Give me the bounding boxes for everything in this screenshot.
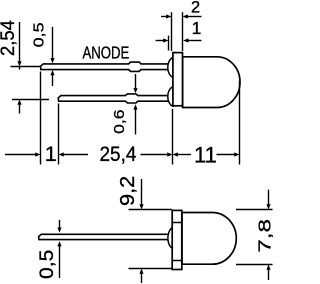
extension lines for dim 2: [171, 12, 173, 51]
tick at cathode lead centerline: [12, 99, 49, 101]
wire: cathode lead (bottom lead with crimp bump): [58, 94, 168, 103]
svg-text:25,4: 25,4: [100, 143, 137, 166]
wire: lead (bottom view): [39, 234, 169, 239]
extension line: dome right tangent: [239, 81, 241, 165]
dimension 7,8 (body diameter): [236, 190, 273, 280]
LED body (bottom view): [182, 213, 236, 265]
extension lines 7,8: [236, 209, 273, 211]
tick at anode lead centerline: [11, 66, 41, 68]
svg-text:0,6: 0,6: [112, 109, 127, 133]
lead standoff bulge (cathode, at flange): [168, 87, 174, 107]
extension line: anode lead left end: [40, 72, 42, 165]
svg-text:2,54: 2,54: [0, 20, 18, 56]
lead standoff bulge (bottom view): [168, 227, 175, 249]
svg-text:1: 1: [45, 142, 57, 166]
flange (side view): [173, 53, 183, 106]
dimension 0,6 (cathode lead thickness at bump): [133, 74, 137, 135]
dimension 2 (flange thickness): [161, 12, 202, 51]
svg-text:2: 2: [191, 0, 200, 17]
svg-text:7,8: 7,8: [255, 219, 275, 253]
svg-text:0,5: 0,5: [36, 250, 57, 279]
dimension 9,2 (flange diameter): [129, 179, 172, 283]
svg-text:9,2: 9,2: [115, 176, 138, 206]
bottom dimension chain: 1 / 25,4 / 11: [5, 72, 240, 165]
dimension 1 (lead end to flange): [156, 36, 202, 51]
extension lines 9,2: [129, 209, 172, 211]
svg-text:ANODE: ANODE: [83, 44, 130, 63]
lead standoff bulge (anode, at flange): [168, 57, 174, 77]
extension line: cathode lead left end: [58, 104, 60, 165]
dimension 2,54: vertical line with arrows: [11, 22, 50, 114]
LED body (epoxy dome, side view): [183, 57, 240, 108]
svg-text:0,5: 0,5: [31, 22, 47, 47]
dimension 0,5 (anode lead thickness): [50, 27, 54, 86]
flange (bottom view, with flat lines): [172, 210, 182, 269]
extension line for dim 1: [168, 36, 170, 51]
svg-text:1: 1: [192, 18, 202, 38]
wire: anode lead (top lead with crimp bump): [41, 62, 169, 71]
svg-text:11: 11: [194, 142, 217, 167]
extension line: flange left: [172, 109, 174, 165]
dimension 0,5 (bottom view lead thickness): [57, 220, 61, 278]
